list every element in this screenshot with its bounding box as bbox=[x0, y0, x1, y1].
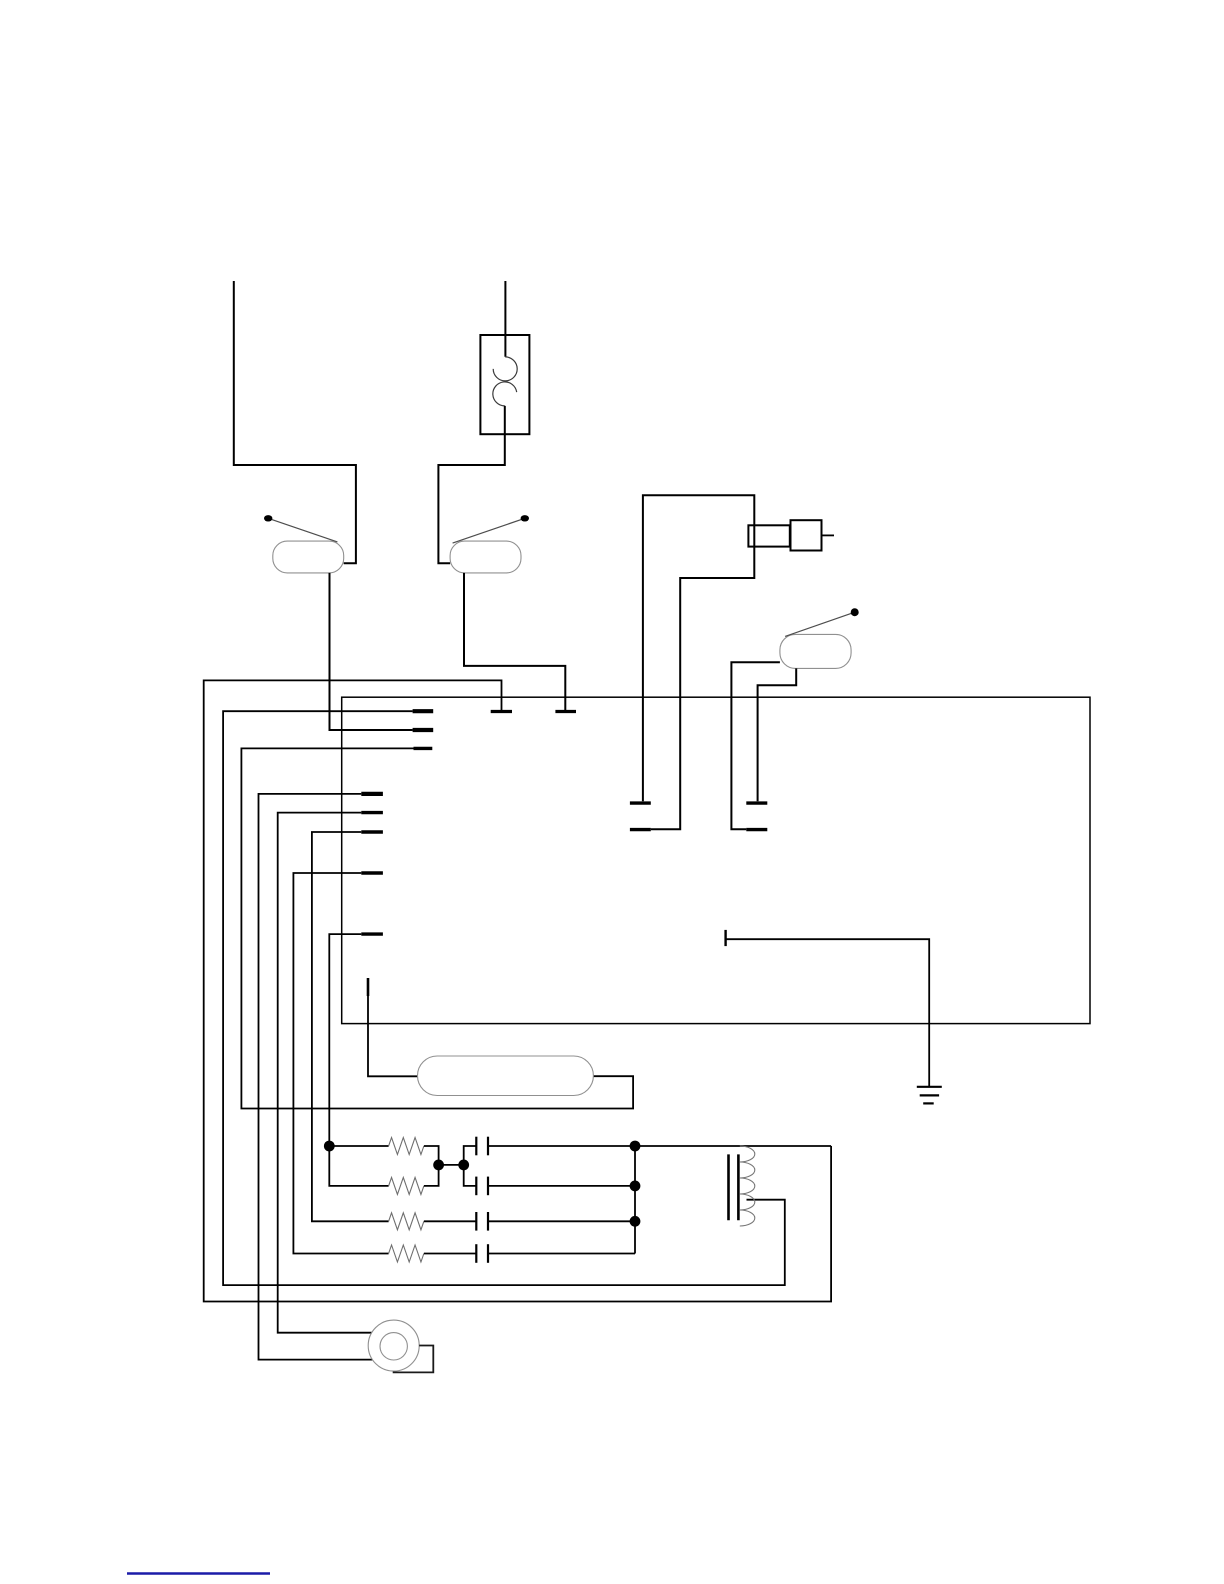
capacitor C1 plates bbox=[475, 1137, 477, 1156]
pin H bar bbox=[361, 932, 383, 935]
wire: row 4 right run bbox=[488, 1253, 635, 1255]
igniter pin stub bbox=[367, 978, 370, 996]
transformer T1 core bar left bbox=[727, 1154, 730, 1220]
plug J1 large shell bbox=[791, 520, 822, 550]
ground symbol bbox=[917, 1087, 942, 1104]
wire W8: pin H down to RC rows 1 and 2 bbox=[329, 934, 388, 1186]
wire W2: pin A around left side, bottom run, to transformer tap bbox=[223, 711, 785, 1285]
pin F bar bbox=[361, 830, 383, 833]
connector P2 upper bar bbox=[746, 801, 767, 804]
wire: SW2 output to board terminal T2 bbox=[464, 573, 565, 710]
wire: right supply drop into breaker bbox=[504, 281, 506, 357]
resistor R4 bbox=[389, 1245, 424, 1262]
switch SW1 lever bbox=[268, 518, 337, 542]
circuit breaker CB1 box bbox=[480, 335, 529, 434]
blower motor M1 volute bbox=[393, 1346, 434, 1373]
sensor pin tick bbox=[724, 930, 726, 946]
junction dot: jog left bbox=[433, 1160, 444, 1171]
blower motor M1 outer circle bbox=[368, 1320, 419, 1371]
transformer T1 coil bbox=[740, 1146, 755, 1226]
pin C bar bbox=[414, 747, 433, 750]
circuit breaker CB1 upper contact arc bbox=[493, 357, 517, 381]
wire: breaker output to limit switch SW2 bbox=[438, 406, 504, 563]
pin D bar bbox=[361, 792, 383, 796]
switch SW1 body bbox=[273, 541, 344, 573]
junction dot: jog right bbox=[458, 1160, 469, 1171]
wire: jog to capacitor row 2 bbox=[464, 1165, 477, 1186]
wire: row 1 right run to W1 riser bbox=[488, 1145, 831, 1147]
junction dot: riser row1 bbox=[630, 1141, 641, 1152]
wire: left supply drop to limit switch SW1 bbox=[234, 281, 356, 563]
wire: sensor pin to chassis ground bbox=[726, 939, 930, 1086]
wire: jog to capacitor row 1 bbox=[464, 1146, 477, 1165]
switch SW3 lever bbox=[785, 612, 855, 636]
switch SW2 body bbox=[450, 541, 521, 573]
resistor R3 bbox=[389, 1213, 424, 1230]
switch SW3 pivot dot bbox=[851, 608, 859, 616]
pin G bar bbox=[361, 871, 383, 874]
wire: igniter feed bbox=[368, 996, 418, 1076]
wire: SW1 output down to board pin B bbox=[330, 573, 413, 730]
resistor R1 bbox=[389, 1138, 424, 1155]
wire: row 2 right run bbox=[488, 1185, 635, 1187]
pin B bar bbox=[413, 728, 434, 732]
wire: row 4 resistor to capacitor bbox=[424, 1253, 476, 1255]
connector P1 lower bar bbox=[630, 828, 651, 831]
connector P1 upper bar bbox=[630, 801, 651, 804]
capacitor C2 plates bbox=[475, 1177, 477, 1196]
wire: row1 resistor to centre jog bbox=[424, 1146, 439, 1165]
footer blue rule bbox=[127, 1572, 270, 1574]
transformer T1 core bar right bbox=[737, 1154, 740, 1220]
junction dot: riser row3 bbox=[630, 1216, 641, 1227]
wire W3: pin C around left side to igniter DSI right output bbox=[241, 748, 633, 1108]
wire: row2 resistor to centre jog bbox=[424, 1165, 439, 1186]
control board box bbox=[342, 697, 1090, 1023]
wire: connector P1 upper bar loop up through plug J1 and back to P1 lower bar bbox=[643, 495, 754, 829]
plug J1 stub lead bbox=[822, 534, 835, 536]
wire W6: pin G to RC row 4 bbox=[293, 873, 388, 1254]
connector P2 lower bar bbox=[746, 828, 767, 831]
junction dot: row1 left bbox=[324, 1141, 335, 1152]
wire: jog link bbox=[439, 1164, 464, 1166]
switch SW1 pivot dot bbox=[264, 515, 272, 521]
switch SW3 body bbox=[780, 634, 851, 668]
wire: SW3 output down to connector P2 upper bar bbox=[758, 668, 797, 801]
wire W4: pin D to blower motor lower lead bbox=[259, 794, 373, 1360]
wire: row 3 resistor to capacitor bbox=[424, 1220, 476, 1222]
pin E bar bbox=[361, 811, 383, 814]
wire W5: pin E to blower motor upper lead bbox=[278, 813, 372, 1333]
wire: RC common riser bbox=[634, 1146, 636, 1254]
wire: connector P2 lower bar loop to SW3 input bbox=[731, 662, 780, 829]
junction dot: riser row2 bbox=[630, 1181, 641, 1192]
wire: row 1 from junction through resistor lead bbox=[329, 1145, 388, 1147]
circuit breaker CB1 lower contact arc bbox=[493, 382, 517, 406]
resistor R2 bbox=[389, 1177, 424, 1194]
switch SW2 pivot dot bbox=[521, 515, 529, 521]
wire W7: pin F to RC row 3 bbox=[312, 832, 389, 1221]
wire W1: terminal T1 up-around left side, bottom run, up to RC row 1 right end bbox=[204, 680, 831, 1301]
pin A bar bbox=[413, 709, 434, 713]
capacitor C4 plates bbox=[475, 1244, 477, 1263]
plug J1 small shell bbox=[748, 525, 789, 546]
terminal T2 bar bbox=[555, 710, 576, 713]
switch SW2 lever bbox=[453, 518, 525, 543]
terminal T1 bar bbox=[491, 710, 512, 713]
wire: row 3 right run bbox=[488, 1220, 635, 1222]
capacitor C3 plates bbox=[475, 1212, 477, 1231]
igniter DSI body bbox=[418, 1056, 594, 1096]
blower motor M1 inner circle bbox=[380, 1333, 407, 1360]
